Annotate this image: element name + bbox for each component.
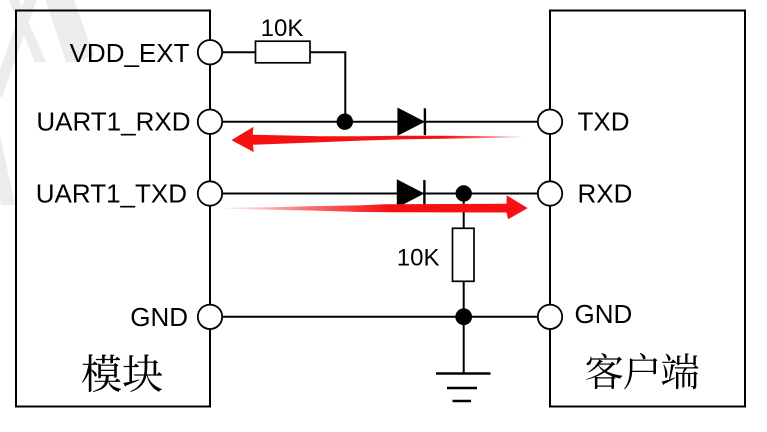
svg-text:VDD_EXT: VDD_EXT xyxy=(70,38,190,68)
node junction on TXD line xyxy=(456,185,472,201)
arrow RX direction (to module) xyxy=(231,127,522,152)
label 客户端 xyxy=(586,353,698,389)
svg-text:GND: GND xyxy=(575,299,633,329)
pin GND (module) xyxy=(130,302,222,332)
pin UART1_TXD xyxy=(36,179,222,209)
resistor R1 xyxy=(256,41,311,63)
node junction on GND line xyxy=(455,308,472,325)
wire R2 to GND line xyxy=(463,281,465,317)
label 模块 xyxy=(82,354,162,392)
diode D2 xyxy=(397,180,424,207)
svg-text:UART1_RXD: UART1_RXD xyxy=(36,107,190,137)
wire junction to R2 xyxy=(463,194,465,229)
node junction on RXD line xyxy=(337,114,353,130)
resistor R2 xyxy=(453,228,475,281)
module box U1 xyxy=(16,11,210,407)
wire UART1_TXD line xyxy=(210,193,550,195)
wire VDD_EXT to R1 xyxy=(210,51,256,53)
svg-text:GND: GND xyxy=(130,302,188,332)
arrow TX direction (to client) xyxy=(226,195,528,219)
diode D1 xyxy=(398,108,425,135)
wire GND line xyxy=(210,316,550,318)
pin GND (client) xyxy=(538,299,632,329)
pin VDD_EXT xyxy=(70,38,223,68)
svg-text:TXD: TXD xyxy=(578,107,630,137)
pin TXD xyxy=(538,107,630,137)
client box U2 xyxy=(550,11,745,407)
wire GND junction to ground xyxy=(463,317,465,374)
pin UART1_RXD xyxy=(36,107,222,137)
svg-text:UART1_TXD: UART1_TXD xyxy=(36,179,187,209)
svg-text:RXD: RXD xyxy=(578,179,633,209)
wire R1 to corner xyxy=(310,52,345,122)
wire UART1_RXD line xyxy=(210,121,550,123)
pin RXD xyxy=(538,179,633,209)
ground xyxy=(436,374,491,402)
svg-text:10K: 10K xyxy=(261,15,304,42)
svg-text:10K: 10K xyxy=(397,244,440,271)
